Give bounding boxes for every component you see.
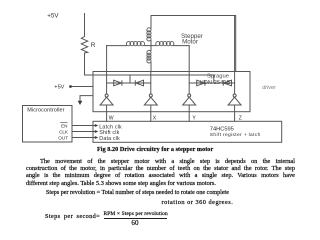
- svg-text:CLK: CLK: [59, 129, 69, 134]
- svg-text:Y: Y: [192, 115, 196, 121]
- svg-text:Shift register + latch: Shift register + latch: [210, 132, 261, 138]
- svg-text:UDN 2541B: UDN 2541B: [200, 80, 231, 86]
- svg-text:74HC595: 74HC595: [210, 127, 234, 133]
- svg-text:Motor: Motor: [182, 38, 198, 45]
- svg-text:Sprague: Sprague: [207, 73, 229, 79]
- svg-text:driver: driver: [262, 85, 276, 91]
- svg-text:EN: EN: [61, 123, 67, 128]
- svg-text:+5V: +5V: [54, 85, 64, 91]
- svg-text:+5V: +5V: [47, 13, 59, 20]
- svg-text:R: R: [91, 42, 96, 49]
- svg-text:Microcontroller: Microcontroller: [27, 107, 64, 113]
- svg-text:X: X: [153, 115, 157, 121]
- svg-text:W: W: [109, 115, 114, 121]
- svg-text:OUT: OUT: [58, 135, 68, 140]
- svg-text:Data clk: Data clk: [99, 136, 120, 142]
- svg-text:Z: Z: [239, 115, 242, 121]
